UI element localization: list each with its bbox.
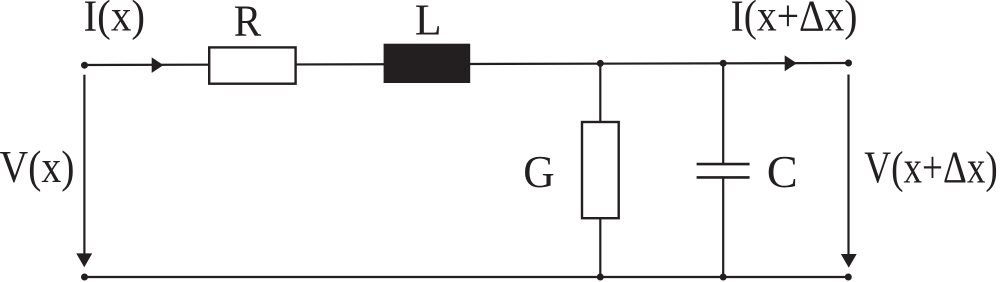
arrowhead down-left V(x) — [76, 253, 92, 267]
bottom wire — [85, 276, 849, 278]
svg-text:I(x): I(x) — [84, 0, 146, 40]
left vertical wire — [83, 75, 85, 255]
inductor L box — [384, 44, 471, 83]
svg-text:L: L — [415, 0, 442, 45]
conductance G branch bottom wire — [599, 218, 601, 277]
svg-text:G: G — [523, 146, 555, 197]
capacitor C bottom plate — [697, 176, 750, 179]
arrowhead right I(x+dx) — [785, 55, 797, 71]
capacitor C top plate — [697, 163, 750, 166]
arrowhead down-right V(x+dx) — [841, 254, 857, 268]
top wire — [85, 63, 849, 65]
right vertical wire — [847, 75, 849, 256]
conductance G box — [582, 122, 619, 218]
arrowhead right I(x) — [152, 57, 164, 73]
node dot bottom C — [720, 274, 727, 281]
capacitor C branch top wire — [722, 63, 724, 164]
node dot bottom G — [597, 274, 604, 281]
node dot top G — [597, 60, 604, 67]
svg-text:C: C — [767, 146, 798, 197]
node dot bottom-right — [845, 274, 852, 281]
svg-text:V(x+Δx): V(x+Δx) — [864, 142, 998, 193]
node dot bottom-left — [81, 274, 88, 281]
conductance G branch top wire — [599, 64, 601, 122]
capacitor C branch bottom wire — [722, 178, 724, 277]
svg-text:R: R — [234, 0, 262, 45]
node dot top C — [720, 60, 727, 67]
node dot top-right — [845, 60, 852, 67]
svg-text:I(x+Δx): I(x+Δx) — [731, 0, 858, 40]
node dot top-left — [81, 62, 88, 69]
svg-text:V(x): V(x) — [0, 141, 75, 192]
resistor R box — [209, 47, 295, 83]
